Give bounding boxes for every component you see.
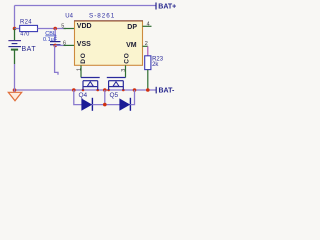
svg-text:VM: VM bbox=[126, 42, 137, 49]
svg-text:BAT-: BAT- bbox=[159, 88, 175, 95]
node: Q4 drain on rail bbox=[96, 89, 99, 92]
wire: mid riser rail to diode line bbox=[104, 90, 106, 105]
wire: D5 cathode to right riser bbox=[130, 90, 134, 105]
svg-text:470: 470 bbox=[20, 32, 29, 38]
svg-text:6: 6 bbox=[63, 40, 66, 46]
node: right diode riser on rail bbox=[133, 88, 137, 92]
node: cap lower lead on VSS wire bbox=[53, 44, 57, 48]
svg-text:0.1uF: 0.1uF bbox=[43, 37, 58, 43]
node: junction R24/battery/left rail bbox=[13, 27, 17, 31]
svg-text:3: 3 bbox=[121, 69, 127, 72]
svg-text:CO: CO bbox=[123, 52, 130, 63]
svg-text:VSS: VSS bbox=[77, 41, 91, 48]
svg-text:DP: DP bbox=[127, 24, 137, 31]
pin 4 stub (DP, floating) bbox=[143, 25, 152, 27]
wire: bottom BAT- rail bbox=[15, 89, 157, 91]
svg-text:1: 1 bbox=[76, 68, 82, 71]
svg-text:S-8261: S-8261 bbox=[89, 13, 115, 20]
transistor Q5 bbox=[107, 65, 126, 99]
svg-text:Q5: Q5 bbox=[110, 92, 119, 99]
wire: top horizontal BAT+ rail bbox=[15, 5, 157, 7]
wire: dangling VSS stub below capacitor bbox=[55, 45, 58, 74]
pin 6 stub bbox=[64, 44, 75, 46]
svg-text:BAT: BAT bbox=[22, 46, 37, 53]
node: capacitor tap on VDD wire bbox=[53, 27, 57, 31]
transistor Q4 bbox=[79, 65, 100, 99]
svg-text:Q4: Q4 bbox=[79, 92, 88, 99]
svg-text:4: 4 bbox=[147, 21, 150, 27]
node: mid junction on diode line bbox=[103, 103, 107, 107]
wire: cap upper lead bbox=[54, 29, 56, 42]
ground bbox=[8, 90, 21, 101]
node: R23 on rail bbox=[146, 88, 150, 92]
diode D4 (body diode) bbox=[82, 98, 93, 111]
pin 5 stub bbox=[64, 28, 75, 30]
node: battery/ground on rail bbox=[13, 88, 17, 92]
pin 2 stub (VM) bbox=[143, 45, 148, 47]
svg-text:U4: U4 bbox=[65, 14, 73, 20]
svg-text:5: 5 bbox=[61, 23, 64, 29]
node: Q5 drain on rail bbox=[122, 89, 125, 92]
wire: left vertical from top rail to R24 node bbox=[14, 6, 16, 29]
node: Q4 source on rail bbox=[82, 89, 85, 92]
diode D5 (body diode) bbox=[120, 98, 131, 111]
wire: R23 down to BAT- rail bbox=[147, 70, 149, 90]
resistor R23 bbox=[145, 56, 164, 70]
wire: diode line D4 to D5 bbox=[92, 104, 120, 106]
svg-text:DO: DO bbox=[80, 52, 87, 63]
svg-text:BAT+: BAT+ bbox=[158, 4, 176, 11]
wire: VSS wire to IC pin 6 bbox=[55, 44, 66, 46]
battery BAT bbox=[8, 29, 36, 91]
node: mid diode riser on rail bbox=[103, 88, 107, 92]
wire: left riser rail to diode line bbox=[74, 90, 82, 105]
svg-text:R24: R24 bbox=[20, 20, 32, 26]
port BAT+ bbox=[156, 3, 176, 11]
node: left diode riser on rail bbox=[72, 88, 76, 92]
port BAT- bbox=[156, 87, 175, 95]
svg-text:2: 2 bbox=[145, 41, 148, 47]
resistor R24 bbox=[20, 20, 38, 38]
wire: VM pin down to R23 bbox=[147, 46, 149, 56]
svg-text:2k: 2k bbox=[152, 62, 159, 68]
IC U4 S-8261 bbox=[65, 13, 143, 66]
node: Q5 source on rail bbox=[107, 89, 110, 92]
wire: R24 to IC VDD pin 5 bbox=[38, 28, 67, 30]
capacitor CBL 0.1uF bbox=[43, 31, 61, 45]
wire: node to R24 bbox=[15, 28, 21, 30]
svg-text:VDD: VDD bbox=[77, 23, 92, 30]
